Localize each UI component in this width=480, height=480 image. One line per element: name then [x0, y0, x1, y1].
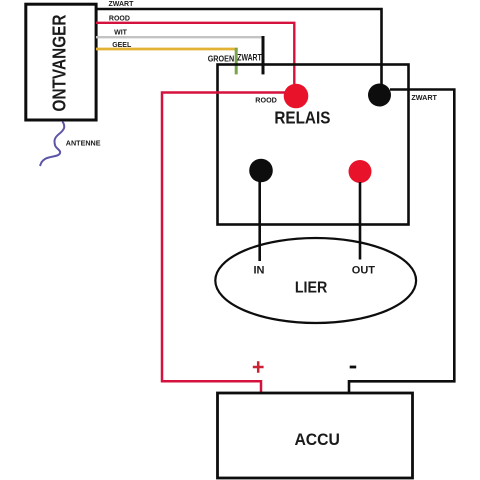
svg-text:WIT: WIT: [114, 30, 128, 37]
antenna wire: [40, 122, 64, 167]
relay box: [218, 65, 409, 225]
wire relay to winch IN: [258, 181, 261, 261]
svg-text:LIER: LIER: [295, 279, 328, 296]
wire relay to winch OUT: [359, 182, 362, 260]
svg-text:ONTVANGER: ONTVANGER: [49, 15, 69, 112]
battery box ACCU: [218, 393, 413, 478]
svg-text:OUT: OUT: [352, 264, 376, 276]
receiver box ONTVANGER: [26, 4, 96, 120]
svg-text:RELAIS: RELAIS: [274, 108, 330, 128]
terminal red (relay top): [284, 84, 309, 109]
wire GEEL (yellow): [96, 48, 238, 51]
terminal black (relay top): [368, 84, 391, 107]
wire black to battery minus: [349, 90, 454, 394]
svg-text:IN: IN: [254, 264, 265, 276]
wire WIT (white/grey): [96, 36, 264, 38]
wire GROEN (green vertical into relay): [235, 48, 238, 75]
wire ZWART (black vertical into relay): [262, 36, 265, 74]
svg-text:ACCU: ACCU: [294, 431, 340, 449]
terminal red (relay bottom, OUT): [349, 160, 372, 183]
svg-text:ANTENNE: ANTENNE: [66, 138, 101, 147]
svg-text:ROOD: ROOD: [109, 16, 130, 23]
terminal black (relay bottom, IN): [249, 159, 273, 183]
wire ROOD from receiver to relay red terminal: [96, 23, 294, 88]
wire red to battery plus: [162, 93, 285, 394]
svg-text:ZWART: ZWART: [237, 52, 262, 62]
svg-text:GROEN: GROEN: [208, 54, 235, 64]
svg-text:ZWART: ZWART: [411, 93, 437, 102]
svg-text:GEEL: GEEL: [112, 42, 132, 49]
svg-text:ROOD: ROOD: [255, 95, 277, 104]
winch ellipse LIER: [215, 238, 416, 323]
svg-text:ZWART: ZWART: [109, 1, 135, 8]
label - (battery minus): [350, 366, 357, 369]
wire ZWART from receiver to relay black terminal: [96, 9, 382, 85]
label + (battery plus): [253, 361, 264, 372]
